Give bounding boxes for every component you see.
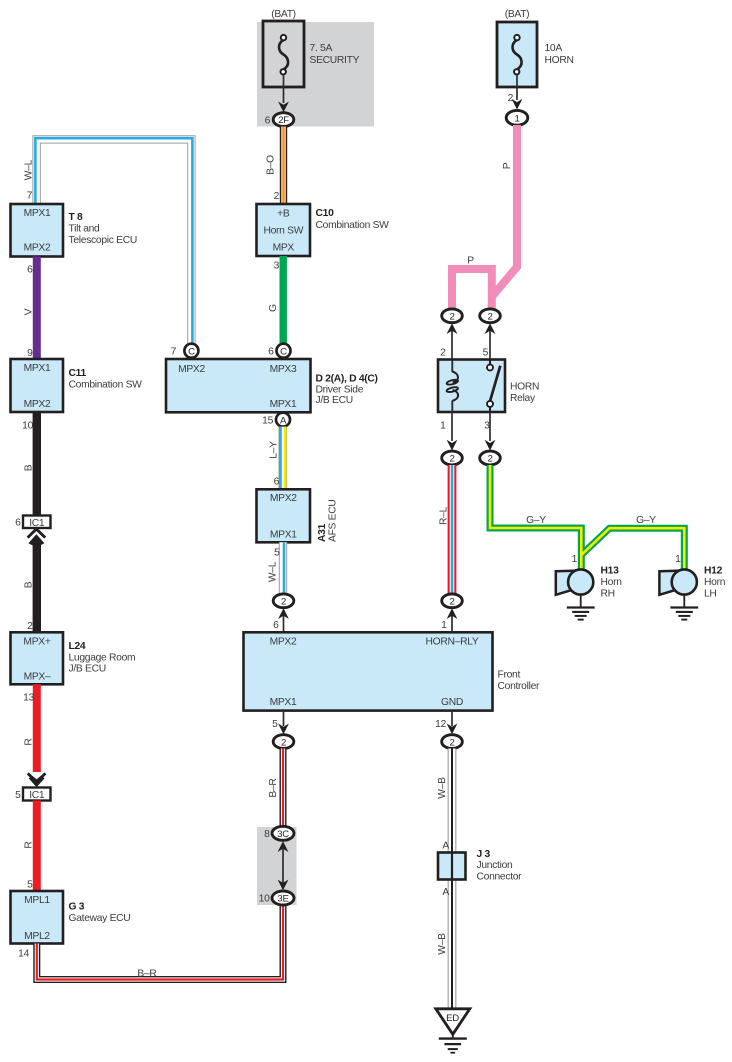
- connector 2 (relay pin 3 bottom): [480, 451, 501, 465]
- svg-text:7: 7: [171, 347, 177, 358]
- svg-text:1: 1: [514, 114, 519, 125]
- svg-text:MPX1: MPX1: [270, 399, 297, 410]
- svg-text:14: 14: [18, 948, 29, 959]
- connector C (pin 6): [268, 344, 290, 358]
- svg-text:Horn SW: Horn SW: [263, 225, 303, 236]
- svg-text:J/B ECU: J/B ECU: [69, 664, 106, 675]
- svg-text:3: 3: [484, 420, 490, 431]
- svg-text:H12: H12: [704, 566, 723, 577]
- wire R from L24 pin 13 to IC1 pin 5: [33, 684, 41, 772]
- svg-text:G–Y: G–Y: [636, 515, 656, 526]
- svg-text:R: R: [24, 738, 35, 745]
- svg-text:Luggage Room: Luggage Room: [69, 653, 136, 664]
- svg-text:D 2(A), D 4(C): D 2(A), D 4(C): [316, 373, 378, 384]
- svg-text:B–O: B–O: [266, 155, 277, 175]
- svg-text:HORN: HORN: [510, 382, 539, 393]
- ECU L24 Luggage Room J/B: [11, 632, 136, 684]
- svg-text:2: 2: [274, 191, 280, 202]
- svg-text:Combination SW: Combination SW: [316, 220, 390, 231]
- svg-text:ED: ED: [446, 1013, 459, 1024]
- svg-text:Tilt and: Tilt and: [69, 223, 101, 234]
- svg-text:MPX2: MPX2: [270, 636, 297, 647]
- svg-text:6: 6: [15, 518, 21, 529]
- svg-text:3C: 3C: [277, 829, 289, 840]
- svg-text:MPL1: MPL1: [24, 895, 50, 906]
- arrows down from relay pins 1 and 3: [440, 412, 495, 451]
- svg-text:(BAT): (BAT): [505, 9, 530, 20]
- svg-text:HORN: HORN: [545, 55, 574, 66]
- svg-text:IC1: IC1: [29, 518, 45, 529]
- svg-text:C: C: [188, 346, 195, 357]
- svg-text:7: 7: [27, 191, 33, 202]
- arrow up from FC MPX2 pin 6: [273, 608, 289, 632]
- svg-text:W–B: W–B: [437, 777, 448, 799]
- switch C11 Combination SW: [11, 359, 143, 412]
- svg-text:MPX2: MPX2: [270, 493, 297, 504]
- svg-text:Front: Front: [498, 670, 521, 681]
- svg-text:B–R: B–R: [137, 968, 156, 979]
- wire B-R from G3 pin 14 along bottom to 3E: [37, 905, 283, 980]
- svg-text:2: 2: [449, 597, 454, 608]
- connector 2 (front controller MPX2 side): [273, 594, 294, 608]
- connector C (pin 7): [171, 344, 199, 358]
- svg-text:R: R: [24, 841, 35, 848]
- wire R-L from relay pin 1 to FC HORN-RLY: [448, 465, 457, 594]
- svg-text:+B: +B: [277, 208, 290, 219]
- horn H12 LH: [659, 554, 725, 620]
- svg-text:5: 5: [274, 548, 280, 559]
- svg-text:MPX1: MPX1: [24, 363, 51, 374]
- svg-text:MPL2: MPL2: [24, 931, 50, 942]
- connector 2 (relay pin 5 top): [480, 309, 501, 323]
- horn H13 RH: [556, 554, 622, 620]
- svg-text:2: 2: [449, 312, 454, 323]
- switch C10 Combination SW (horn): [257, 204, 390, 256]
- svg-text:T 8: T 8: [69, 212, 84, 223]
- ECU Front Controller: [244, 632, 541, 710]
- svg-text:A31: A31: [317, 523, 328, 542]
- svg-text:10: 10: [259, 894, 270, 905]
- svg-text:C: C: [280, 346, 287, 357]
- svg-text:6: 6: [274, 477, 280, 488]
- svg-text:2: 2: [508, 93, 514, 104]
- svg-text:(BAT): (BAT): [271, 9, 296, 20]
- svg-text:1: 1: [572, 554, 578, 565]
- svg-text:1: 1: [675, 554, 681, 565]
- svg-text:MPX–: MPX–: [24, 672, 51, 683]
- svg-text:J/B ECU: J/B ECU: [316, 395, 353, 406]
- svg-text:MPX1: MPX1: [270, 697, 297, 708]
- svg-text:Horn: Horn: [704, 577, 726, 588]
- svg-text:L–Y: L–Y: [268, 441, 279, 459]
- svg-text:2: 2: [281, 737, 286, 748]
- ground ED: [436, 1009, 470, 1053]
- svg-text:6: 6: [273, 620, 279, 631]
- svg-text:A: A: [280, 415, 287, 426]
- svg-text:J 3: J 3: [477, 849, 491, 860]
- svg-text:1: 1: [441, 620, 447, 631]
- svg-text:GND: GND: [441, 697, 463, 708]
- wire R from IC1 to G3 MPL1: [33, 801, 41, 892]
- svg-text:MPX+: MPX+: [23, 636, 50, 647]
- svg-text:HORN–RLY: HORN–RLY: [426, 636, 479, 647]
- svg-text:C10: C10: [316, 208, 335, 219]
- ECU D2(A) D4(C) Driver Side J/B: [166, 359, 378, 412]
- svg-text:6: 6: [268, 347, 274, 358]
- svg-text:C11: C11: [69, 368, 87, 379]
- wire B-R from connector 2 to 3C: [280, 749, 287, 827]
- svg-text:MPX2: MPX2: [24, 399, 51, 410]
- svg-text:Horn: Horn: [601, 577, 623, 588]
- connector 2 (below FC MPX1): [273, 735, 294, 749]
- shaded block (3C/3E connector area): [257, 827, 297, 905]
- svg-text:3E: 3E: [277, 894, 288, 905]
- svg-text:B: B: [24, 581, 35, 588]
- svg-text:15: 15: [262, 415, 273, 426]
- fuse 7.5A SECURITY: [263, 9, 360, 87]
- svg-text:MPX1: MPX1: [24, 208, 51, 219]
- svg-text:Relay: Relay: [510, 393, 536, 404]
- connector 3C (pin 8): [264, 826, 294, 840]
- wire from fuse to connector 1 with arrow: [508, 76, 523, 110]
- svg-text:Junction: Junction: [477, 860, 514, 871]
- wire B from C11 pin 10 to IC1 pin 6: [33, 412, 41, 516]
- connector 1: [506, 110, 528, 125]
- svg-text:AFS ECU: AFS ECU: [328, 499, 339, 542]
- svg-text:2: 2: [487, 454, 492, 465]
- svg-text:Driver Side: Driver Side: [316, 384, 364, 395]
- svg-text:12: 12: [435, 719, 446, 730]
- svg-text:10: 10: [22, 421, 33, 432]
- svg-text:Connector: Connector: [477, 871, 523, 882]
- arrow up from FC HORN-RLY pin 1: [441, 608, 457, 632]
- svg-text:9: 9: [27, 348, 33, 359]
- connector 3E (pin 10): [259, 891, 294, 905]
- connector 2 (FC HORN-RLY): [442, 594, 463, 608]
- ECU G3 Gateway: [11, 891, 131, 944]
- svg-text:Gateway ECU: Gateway ECU: [69, 913, 131, 924]
- svg-text:2: 2: [487, 312, 492, 323]
- wire V from T8 pin 6 to C11 pin 9: [33, 257, 41, 360]
- wire B from IC1 to L24 MPX+: [33, 542, 41, 632]
- svg-text:MPX: MPX: [273, 243, 295, 254]
- wire W-L loop from T8 MPX1 to D J/B pin 7: [35, 138, 192, 344]
- svg-text:R–L: R–L: [439, 506, 450, 525]
- svg-text:W–L: W–L: [24, 159, 35, 180]
- connector IC1 (pin 6): [15, 516, 50, 529]
- svg-text:V: V: [24, 308, 35, 315]
- svg-text:RH: RH: [601, 589, 615, 600]
- arrow down into IC1 (pin 5): [28, 773, 46, 787]
- svg-text:2F: 2F: [278, 115, 289, 126]
- wire from fuse to connector 2F with arrow: [278, 76, 289, 113]
- svg-text:8: 8: [264, 829, 270, 840]
- relay HORN Relay: [438, 360, 539, 413]
- svg-text:2: 2: [27, 621, 33, 632]
- svg-text:G: G: [268, 304, 279, 312]
- connector A (pin 15): [262, 413, 290, 427]
- arrow up into IC1: [28, 529, 46, 545]
- svg-text:W–L: W–L: [268, 561, 279, 582]
- arrows between 3C and 3E: [278, 841, 289, 890]
- wire W-L from A31 pin 5 to connector 2: [283, 542, 284, 594]
- wire L-Y from A to A31 MPX2: [280, 427, 285, 490]
- svg-text:6: 6: [27, 265, 33, 276]
- svg-text:A: A: [442, 887, 449, 898]
- svg-text:G–Y: G–Y: [526, 515, 546, 526]
- wire W-B from connector 2 to ED ground: [448, 749, 457, 1010]
- connector 2F (pin 6): [265, 113, 294, 127]
- svg-text:5: 5: [483, 348, 489, 359]
- svg-text:2: 2: [281, 597, 286, 608]
- svg-text:A: A: [442, 841, 449, 852]
- svg-text:W–B: W–B: [437, 933, 448, 955]
- connector 2 (relay pin 1 bottom): [442, 451, 463, 465]
- svg-text:Combination SW: Combination SW: [69, 380, 143, 391]
- svg-text:MPX1: MPX1: [270, 530, 297, 541]
- ECU T8 Tilt and Telescopic: [11, 204, 137, 257]
- svg-text:7. 5A: 7. 5A: [310, 43, 333, 54]
- svg-text:B: B: [24, 464, 35, 471]
- svg-text:6: 6: [265, 116, 271, 127]
- arrows up from relay pins 2 and 5: [440, 323, 495, 359]
- svg-text:1: 1: [440, 420, 446, 431]
- svg-text:MPX2: MPX2: [24, 242, 51, 253]
- svg-text:3: 3: [274, 261, 280, 272]
- wire G-Y from relay pin 3 to horns: [490, 465, 684, 570]
- svg-text:5: 5: [27, 880, 33, 891]
- svg-text:LH: LH: [704, 589, 717, 600]
- svg-text:MPX2: MPX2: [178, 364, 205, 375]
- svg-text:G 3: G 3: [69, 902, 85, 913]
- svg-text:5: 5: [15, 790, 21, 801]
- arrow down from FC MPX1 pin 5: [272, 711, 289, 735]
- svg-text:IC1: IC1: [29, 790, 45, 801]
- svg-text:2: 2: [449, 454, 454, 465]
- wire G from C10 pin 3 to D J/B pin 6: [280, 256, 287, 344]
- fuse 10A HORN: [497, 9, 574, 87]
- svg-text:P: P: [467, 256, 474, 267]
- svg-text:2: 2: [440, 348, 446, 359]
- svg-text:L24: L24: [69, 641, 86, 652]
- svg-text:10A: 10A: [545, 43, 563, 54]
- ECU A31 AFS: [257, 489, 339, 542]
- arrow down from FC GND pin 12: [435, 711, 457, 735]
- connector J3 Junction Connector: [438, 849, 522, 882]
- svg-text:2: 2: [449, 737, 454, 748]
- svg-text:H13: H13: [601, 566, 620, 577]
- connector IC1 (pin 5): [15, 788, 50, 802]
- wire P from connector 1 to horn relay pins 2 and 5: [452, 125, 517, 309]
- svg-text:P: P: [502, 162, 513, 169]
- svg-text:MPX3: MPX3: [270, 364, 297, 375]
- svg-text:Telescopic ECU: Telescopic ECU: [69, 235, 137, 246]
- svg-text:5: 5: [272, 719, 278, 730]
- connector 2 (relay pin 2 top): [442, 309, 463, 323]
- svg-text:SECURITY: SECURITY: [310, 55, 360, 66]
- svg-text:Controller: Controller: [498, 681, 541, 692]
- shaded block (SECURITY fuse area): [257, 22, 374, 127]
- wire B-O from 2F to C10 +B: [280, 127, 287, 205]
- svg-text:13: 13: [23, 693, 34, 704]
- connector 2 (below FC GND): [442, 735, 463, 749]
- svg-text:B–R: B–R: [268, 778, 279, 797]
